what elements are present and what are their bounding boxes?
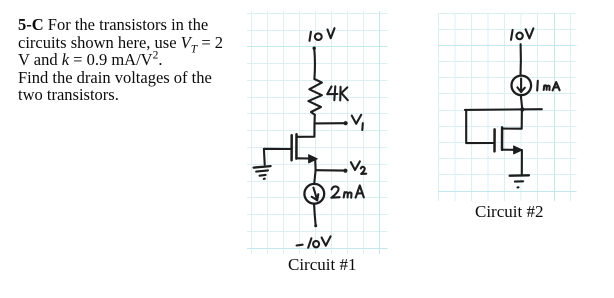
node dot below 10V <box>313 47 316 50</box>
graph paper grid, circuit 2 <box>438 13 577 201</box>
drain wire <box>502 110 522 129</box>
transistor Q2 gate bar <box>493 129 496 151</box>
transistor Q1 channel bar <box>295 134 298 158</box>
wire V1 to drain <box>297 123 315 136</box>
caption Circuit #2 <box>475 202 543 222</box>
wire gate to ground <box>264 149 292 165</box>
resistor R 4K <box>308 79 322 115</box>
node dot (drain node) <box>520 107 524 111</box>
wire 10V to current source <box>519 44 521 75</box>
feedback wire to gate <box>466 110 494 143</box>
graph paper grid, circuit 1 <box>247 11 388 254</box>
label 4K <box>327 86 348 100</box>
label -10V <box>297 236 331 247</box>
transistor Q2 channel bar <box>501 127 504 149</box>
wire V2 to current source <box>314 170 315 184</box>
node V1 dot <box>344 121 348 125</box>
node horizontal wire <box>465 108 542 111</box>
source wire with arrow <box>296 157 309 159</box>
label V1 <box>352 115 363 130</box>
node V2 dot <box>343 169 347 173</box>
label 10V (supply, circuit 1) <box>310 28 335 41</box>
wire source to ground <box>521 150 523 175</box>
source wire with arrow <box>502 149 514 151</box>
ground (circuit 1) <box>254 166 271 179</box>
wire current source to drain node <box>521 95 522 108</box>
label V2 <box>351 161 366 174</box>
ground (circuit 2) <box>510 175 529 187</box>
wire node V2 stub <box>316 169 345 172</box>
label 2 mA <box>331 186 363 198</box>
transistor Q1 gate bar <box>290 135 293 160</box>
wire current source to -10V <box>314 204 316 225</box>
label 1 mA <box>537 81 559 91</box>
wire source to V2 node <box>314 159 316 170</box>
caption Circuit #1 <box>288 255 356 275</box>
current source I1 (2 mA) <box>304 184 324 204</box>
wire 10V to resistor <box>313 48 316 79</box>
wire node V1 stub <box>315 122 345 124</box>
wire resistor to V1 node <box>313 115 315 124</box>
current source I2 (1 mA) <box>512 76 532 96</box>
label 10V (supply, circuit 2) <box>511 28 533 39</box>
